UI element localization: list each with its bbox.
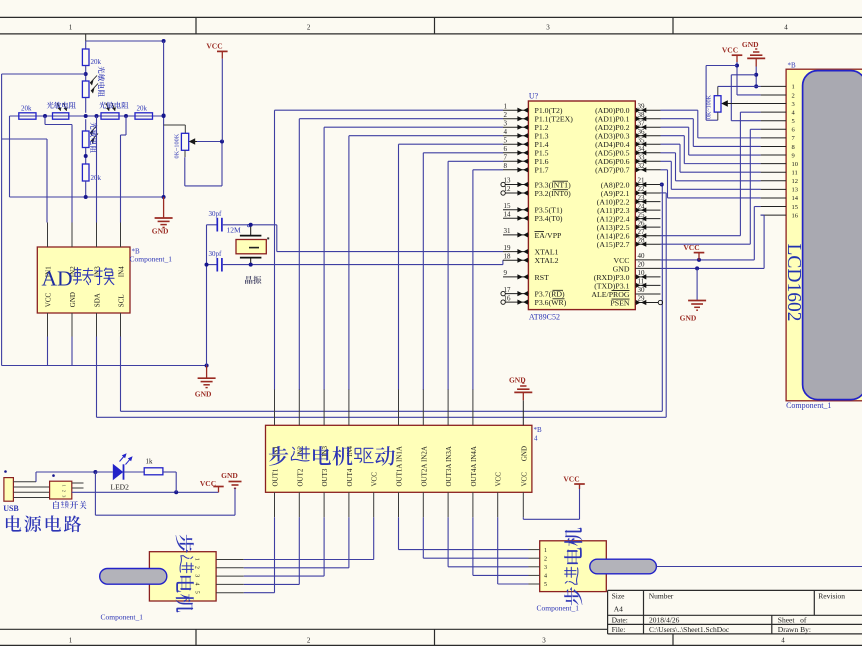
MCU pin 9 RST	[503, 276, 528, 278]
MCU pin 12 P3.2(INT0)	[506, 192, 529, 194]
wire vertical x163	[163, 41, 165, 197]
svg-text:20: 20	[638, 261, 646, 269]
wire P0.3 to LCD pin 10	[661, 135, 685, 137]
label 光敏电阻	[47, 102, 54, 109]
wire P0.2 to LCD pin 9	[661, 126, 689, 128]
MCU pin 8 P1.7	[503, 169, 528, 171]
MCU pin 16 P3.6(WR)	[506, 301, 529, 303]
svg-text:6: 6	[504, 145, 508, 153]
wire IN4	[125, 116, 127, 135]
svg-text:Component_1: Component_1	[130, 255, 173, 264]
wire driver OUT5A to motor2	[497, 517, 499, 584]
svg-text:2: 2	[504, 111, 508, 119]
crystal 12M	[236, 240, 266, 254]
svg-text:2: 2	[62, 490, 67, 492]
wire	[85, 66, 87, 82]
svg-text:15: 15	[792, 204, 799, 211]
MCU pin 27 (A14)P2.6	[635, 235, 660, 237]
svg-text:Number: Number	[649, 592, 674, 601]
AD GND pin wire	[71, 337, 73, 366]
svg-text:4: 4	[784, 23, 788, 31]
wire GND net pin20/LCD16	[661, 267, 765, 269]
svg-text:1: 1	[62, 485, 67, 487]
photoresistor (row, left)	[53, 113, 69, 119]
svg-text:AT89C52: AT89C52	[529, 313, 560, 322]
svg-text:VCC: VCC	[371, 472, 379, 487]
wire P0.5 to LCD pin 12	[661, 152, 676, 154]
wire driver OUT4A to motor2	[472, 517, 474, 575]
wire VCC to pot	[706, 65, 737, 67]
node	[205, 364, 209, 368]
LED2	[113, 464, 123, 480]
power port VCC (driver)	[574, 483, 585, 485]
node crystal bottom	[249, 263, 253, 267]
svg-text:VCC: VCC	[520, 472, 528, 487]
svg-text:1: 1	[504, 102, 508, 110]
photoresistor (row, right)	[101, 113, 119, 119]
svg-text:OUT2: OUT2	[296, 468, 304, 486]
driver GND top pin	[522, 400, 524, 425]
sheet border bottom band	[0, 628, 608, 630]
MCU pin 4 P1.3	[503, 135, 528, 137]
MCU pin 3 P1.2	[503, 126, 528, 128]
GND rail (AD bottom)	[2, 365, 207, 367]
svg-text:34: 34	[638, 145, 646, 153]
svg-text:11: 11	[792, 170, 798, 177]
node	[697, 258, 701, 262]
svg-text:27: 27	[638, 228, 646, 236]
svg-text:15: 15	[504, 202, 512, 210]
svg-text:Size: Size	[612, 592, 626, 601]
wire driver OUT4 to motor1	[348, 517, 350, 568]
node	[84, 154, 88, 158]
svg-text:12: 12	[504, 185, 512, 193]
ground (crystal/AD)	[206, 366, 208, 378]
MCU pin 24 (A11)P2.3	[635, 209, 660, 211]
svg-text:OUT4: OUT4	[346, 468, 354, 486]
USB connector	[4, 478, 14, 502]
svg-text:40: 40	[638, 252, 646, 260]
node crystal top	[249, 223, 253, 227]
svg-text:*B: *B	[534, 426, 543, 434]
node	[754, 84, 758, 88]
MCU pin 31 EA/VPP	[503, 234, 528, 236]
MCU pin 19 XTAL1	[503, 251, 528, 253]
svg-text:2: 2	[307, 23, 311, 31]
node top-right of divider row	[162, 39, 166, 43]
svg-text:OUT1: OUT1	[272, 468, 280, 486]
MCU pin 6 P1.5	[503, 152, 528, 154]
MCU pin 39 (AD0)P0.0	[635, 109, 660, 111]
wire P1.4 to driver	[399, 143, 504, 145]
wire P0.4 to LCD pin 11	[661, 143, 681, 145]
svg-text:4: 4	[544, 574, 547, 580]
driver bottom pin stubs	[274, 492, 276, 517]
power port VCC (left pot)	[221, 59, 223, 142]
MCU pin 28 (A15)P2.7	[635, 243, 660, 245]
svg-text:(AD7)P0.7: (AD7)P0.7	[595, 166, 630, 175]
motor2 shaft pill	[590, 559, 657, 574]
motor2 pins	[529, 549, 540, 551]
node	[84, 72, 88, 76]
svg-text:3: 3	[792, 101, 795, 108]
svg-text:22: 22	[638, 185, 646, 193]
svg-text:16: 16	[504, 294, 512, 302]
svg-text:28: 28	[638, 236, 646, 244]
wire driver OUT3A to motor2	[447, 517, 449, 567]
svg-text:LED2: LED2	[111, 483, 130, 492]
svg-text:OUT3A: OUT3A	[445, 464, 453, 487]
wire	[85, 98, 87, 113]
MCU pin 11 (TXD)P3.1	[635, 284, 660, 286]
svg-text:VCC: VCC	[45, 292, 53, 307]
svg-text:33: 33	[638, 154, 646, 162]
svg-text:A4: A4	[614, 605, 623, 614]
svg-text:14: 14	[792, 195, 799, 202]
svg-text:1: 1	[544, 548, 547, 554]
svg-text:36: 36	[638, 128, 646, 136]
wire E pin6 to P2.7	[750, 128, 760, 130]
sheet border top band	[0, 16, 862, 18]
wire RS pin4 to P2.6	[740, 111, 760, 113]
wire VCC net pin40/LCD15	[661, 259, 755, 261]
svg-text:GND: GND	[509, 376, 526, 385]
MCU pin 33 (AD6)P0.6	[635, 160, 660, 162]
svg-text:2: 2	[544, 556, 547, 562]
pot wiper to VO pin3	[725, 103, 787, 105]
LCD1602 block	[786, 69, 862, 401]
wire	[85, 148, 87, 165]
svg-text:16: 16	[792, 212, 799, 219]
potentiometer 0K~100K (LCD)	[717, 86, 719, 95]
svg-text:30: 30	[638, 286, 646, 294]
MCU pin 10 (RXD)P3.0	[635, 276, 660, 278]
wire driver OUT2A to motor2	[422, 517, 424, 558]
svg-text:19: 19	[504, 244, 512, 252]
svg-text:32: 32	[638, 162, 646, 170]
svg-text:5: 5	[194, 591, 200, 594]
resistor 20k (vertical, top)	[85, 41, 87, 49]
wire P1.0 to driver	[275, 109, 504, 111]
wire P1.2 to driver	[324, 126, 503, 128]
AD pin stub bottom	[120, 313, 122, 337]
label 电源电路	[6, 515, 21, 531]
label 光敏电阻	[99, 102, 106, 109]
node	[162, 114, 166, 118]
svg-text:5: 5	[504, 136, 508, 144]
power port VCC (supply)	[218, 487, 220, 492]
wire VDD pin2	[737, 94, 761, 96]
pot bottom loop	[184, 150, 186, 157]
svg-text:IN1A: IN1A	[396, 446, 404, 462]
svg-text:C:\Users\..\Sheet1.SchDoc: C:\Users\..\Sheet1.SchDoc	[649, 625, 730, 634]
svg-text:11: 11	[638, 278, 645, 286]
wire gnd to RW	[731, 74, 756, 76]
wire P1.1 to driver	[299, 118, 503, 120]
svg-text:5: 5	[544, 582, 547, 588]
svg-text:Component_1: Component_1	[537, 604, 580, 613]
wire	[85, 181, 87, 197]
node	[174, 490, 178, 494]
svg-text:20k: 20k	[91, 58, 102, 66]
svg-text:LCD1602: LCD1602	[783, 244, 804, 322]
wire P1.6 to driver	[448, 160, 503, 162]
svg-text:Revision: Revision	[818, 592, 845, 601]
LCD pins	[761, 85, 787, 87]
svg-text:AD: AD	[42, 267, 73, 291]
svg-text:IN4: IN4	[118, 266, 126, 277]
wire VSS pin1	[718, 85, 761, 87]
svg-text:20k: 20k	[21, 104, 32, 112]
svg-text:SCL: SCL	[118, 294, 126, 307]
svg-text:3: 3	[542, 637, 546, 645]
overlines right	[612, 290, 630, 292]
svg-text:VCC: VCC	[206, 42, 222, 51]
svg-text:OUT3: OUT3	[321, 468, 329, 486]
ground (sensor rail)	[163, 197, 165, 218]
row wire	[10, 115, 164, 117]
resistor 20k (vertical, bottom)	[82, 164, 89, 181]
power port VCC (MCU)	[694, 252, 705, 254]
MCU pin 17 P3.7(RD)	[506, 293, 529, 295]
AD VCC pin wire	[47, 337, 49, 366]
node	[84, 114, 88, 118]
svg-text:26: 26	[638, 219, 646, 227]
AD pin stub bottom	[96, 313, 98, 337]
switch right pins	[72, 482, 84, 484]
svg-text:VCC: VCC	[563, 475, 579, 484]
svg-text:1k: 1k	[146, 458, 154, 466]
svg-text:29: 29	[638, 295, 646, 303]
svg-text:GND: GND	[221, 471, 238, 480]
MCU pin 2 P1.1(T2EX)	[503, 118, 528, 120]
svg-text:9: 9	[504, 269, 508, 277]
svg-text:10: 10	[638, 269, 646, 277]
svg-text:23: 23	[638, 194, 646, 202]
svg-text:5: 5	[792, 118, 795, 125]
wire XTAL2	[502, 260, 504, 264]
node	[162, 195, 166, 199]
MCU pin 18 XTAL2	[503, 259, 528, 261]
svg-text:0K~100K: 0K~100K	[707, 94, 713, 119]
AD pin stub bottom	[47, 313, 49, 337]
MCU pin 26 (A13)P2.5	[635, 226, 660, 228]
svg-text:30pf: 30pf	[209, 250, 223, 258]
svg-text:4: 4	[534, 435, 538, 443]
MCU pin 36 (AD3)P0.3	[635, 135, 660, 137]
svg-text:8: 8	[504, 162, 508, 170]
capacitor 30pf (upper)	[207, 224, 217, 226]
svg-text:Component_1: Component_1	[786, 401, 831, 410]
svg-text:20k: 20k	[137, 104, 148, 112]
svg-text:Drawn By:: Drawn By:	[778, 625, 811, 634]
wire motor2 shaft line	[656, 566, 862, 568]
overlines left	[553, 180, 569, 182]
MCU pin 5 P1.4	[503, 143, 528, 145]
svg-text:13: 13	[504, 177, 512, 185]
svg-text:0K~100K: 0K~100K	[174, 133, 181, 158]
svg-text:13: 13	[792, 187, 799, 194]
MCU pin 40 VCC	[635, 259, 660, 261]
svg-text:25: 25	[638, 211, 646, 219]
wire P1.7 to driver	[473, 169, 503, 171]
svg-text:IN4A: IN4A	[470, 446, 478, 462]
svg-text:8: 8	[792, 144, 795, 151]
svg-text:24: 24	[638, 202, 646, 210]
MCU pin 15 P3.5(T1)	[503, 209, 528, 211]
svg-text:4: 4	[504, 128, 508, 136]
svg-text:RST: RST	[535, 273, 550, 282]
wire SCL	[120, 337, 122, 412]
latching switch 自锁开关	[50, 481, 72, 499]
AD pin stub top	[120, 223, 122, 248]
svg-text:Sheet of: Sheet of	[778, 616, 807, 625]
GND rail	[10, 196, 164, 198]
ground (driver top)	[522, 393, 524, 401]
wire driver OUT3 to motor1	[323, 517, 325, 576]
wire P0.6 to LCD pin 13	[661, 160, 672, 162]
AD converter block	[37, 247, 130, 313]
wire IN1	[2, 138, 47, 140]
MCU pin 23 (A10)P2.2	[635, 201, 660, 203]
svg-text:GND: GND	[152, 227, 169, 236]
svg-text:2: 2	[307, 637, 311, 645]
svg-text:21: 21	[638, 177, 646, 185]
MCU pin 13 P3.3(INT1)	[506, 184, 529, 186]
MCU pin 22 (A9)P2.1	[635, 192, 660, 194]
resistor 20k (row left)	[19, 113, 36, 119]
wire driver VCC pin to VCC port	[522, 517, 524, 519]
motor1 label 步进电机 (rotated)	[176, 535, 194, 553]
svg-text:SDA: SDA	[94, 293, 102, 307]
label 光敏电阻 (rotated)	[98, 66, 105, 73]
MCU pin 20 GND	[635, 267, 660, 269]
svg-text:EA/VPP: EA/VPP	[535, 231, 563, 240]
svg-text:1: 1	[69, 23, 73, 31]
stepper motor 2 block	[540, 541, 607, 592]
svg-text:GND: GND	[680, 314, 697, 323]
MCU pin 21 (A8)P2.0	[635, 184, 660, 186]
wire driver OUT1 to motor1	[274, 517, 276, 592]
svg-text:P3.4(T0): P3.4(T0)	[535, 214, 563, 223]
wire driver OUT1A to motor2	[398, 517, 400, 549]
svg-text:GND: GND	[69, 292, 77, 307]
stepper motor 1 block	[149, 552, 216, 601]
ground (MCU)	[696, 268, 698, 300]
node	[695, 266, 699, 270]
svg-text:12: 12	[792, 178, 799, 185]
MCU pin 35 (AD4)P0.4	[635, 143, 660, 145]
wire row-left down	[9, 116, 11, 197]
svg-text:35: 35	[638, 136, 646, 144]
wire driver OUT2 to motor1	[298, 517, 300, 584]
MCU pin 34 (AD5)P0.5	[635, 152, 660, 154]
svg-text:OUT4A: OUT4A	[470, 464, 478, 487]
svg-text:P3.6(WR): P3.6(WR)	[535, 298, 567, 307]
svg-text:17: 17	[504, 286, 512, 294]
svg-text:1: 1	[194, 558, 200, 561]
svg-text:3: 3	[194, 574, 200, 577]
AD pin stub top	[96, 223, 98, 248]
svg-text:3: 3	[544, 565, 547, 571]
op-amp U? AT89C52 MCU block	[528, 101, 635, 310]
svg-text:IN2A: IN2A	[420, 446, 428, 462]
svg-text:9: 9	[792, 152, 795, 159]
node row end	[162, 114, 166, 118]
wire	[86, 40, 164, 42]
motor2 label 步进电机 (rotated)	[564, 587, 582, 605]
svg-text:10: 10	[792, 161, 799, 168]
svg-text:U?: U?	[529, 92, 539, 101]
wire IN3	[96, 116, 98, 223]
driver top pin stubs	[274, 390, 276, 426]
ground (supply)	[229, 482, 242, 489]
svg-text:File:: File:	[612, 625, 626, 634]
svg-text:Component_1: Component_1	[101, 613, 144, 622]
svg-text:IN3A: IN3A	[445, 446, 453, 462]
resistor 20k (row right)	[135, 113, 153, 119]
motor1 pins	[216, 559, 244, 561]
wire IN2	[44, 116, 46, 125]
AD pin stub bottom	[71, 313, 73, 337]
wire P1.5 to driver	[423, 152, 503, 154]
svg-text:GND: GND	[520, 446, 528, 461]
wire P0.0 to LCD pin 7	[661, 109, 698, 111]
svg-text:3: 3	[504, 119, 508, 127]
svg-text:*B: *B	[788, 62, 797, 70]
potentiometer 0K~100K (left)	[184, 125, 186, 133]
svg-text:XTAL2: XTAL2	[535, 256, 559, 265]
ground (LCD top)	[755, 48, 757, 50]
node LED anode	[93, 470, 97, 474]
svg-text:P1.7: P1.7	[535, 166, 549, 175]
motor1 shaft pill	[100, 569, 167, 585]
svg-text:7: 7	[504, 154, 508, 162]
svg-text:2: 2	[792, 92, 795, 99]
stepper driver block 步进电机驱动	[266, 425, 532, 492]
svg-text:38: 38	[638, 111, 646, 119]
resistor 1k	[124, 471, 145, 473]
MCU pin 14 P3.4(T0)	[503, 217, 528, 219]
svg-text:2: 2	[194, 566, 200, 569]
photoresistor (vertical, lower)	[85, 119, 87, 131]
driver big label	[269, 446, 288, 466]
wire P0.7 to LCD pin 14	[661, 169, 668, 171]
svg-text:GND: GND	[742, 40, 759, 49]
node	[754, 73, 758, 77]
wire XTAL1	[276, 225, 278, 252]
svg-text:37: 37	[638, 119, 646, 127]
svg-text:GND: GND	[195, 390, 212, 399]
wire SDA	[96, 337, 98, 418]
svg-text:VCC: VCC	[200, 479, 216, 488]
node	[124, 114, 128, 118]
node P2.0	[660, 183, 664, 187]
svg-text:VCC: VCC	[495, 472, 503, 487]
svg-text:OUT2A: OUT2A	[420, 464, 428, 487]
USB pin wires	[13, 481, 36, 483]
svg-text:14: 14	[504, 210, 512, 218]
svg-text:USB: USB	[3, 504, 19, 513]
wire P0.1 to LCD pin 8	[661, 118, 694, 120]
node wiper	[220, 140, 224, 144]
MCU pin 1 P1.0(T2)	[503, 109, 528, 111]
svg-text:1: 1	[69, 637, 73, 645]
svg-text:18: 18	[504, 252, 512, 260]
wire driver OUT5 to motor1	[373, 517, 375, 559]
svg-text:PSEN: PSEN	[610, 298, 629, 307]
svg-text:4: 4	[781, 637, 785, 645]
